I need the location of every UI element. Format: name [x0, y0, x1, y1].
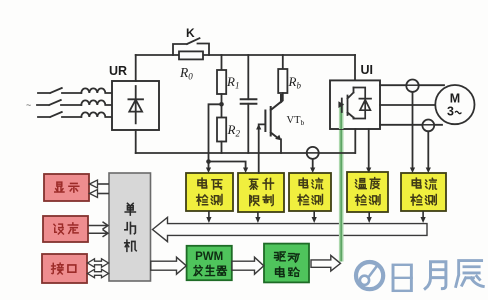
block: temperature detection 温度检测 [347, 172, 388, 212]
wire: motor phase U [380, 84, 444, 86]
svg-text:K: K [186, 26, 195, 40]
wire: DC+ bus down to UI [354, 55, 356, 80]
arrow into voltage detection [206, 168, 211, 174]
wire: R2 bottom to DC- bus [221, 142, 223, 154]
svg-text:PWM: PWM [195, 251, 223, 263]
wire: UI bottom to DC- bus [354, 129, 356, 153]
block: drive circuit 驱动电路 [264, 244, 309, 283]
block: current detection (output) 电流检测 [401, 173, 446, 211]
block: display 显示 [44, 174, 89, 201]
wire: Rb to VTb collector [281, 93, 283, 102]
arrow CT0 into current detection [310, 168, 315, 174]
block: PWM generator PWM发生器 [187, 246, 232, 280]
wire: DC current detection output arrow [312, 211, 317, 223]
arrow: PWM generator to drive circuit [232, 257, 264, 274]
wire: phase line 1 with switch [38, 88, 81, 93]
inductor: phase 2 choke [81, 100, 112, 105]
arrow: drive circuit to gate line [311, 255, 341, 271]
wire: CT0 to DC current detection [312, 159, 314, 169]
current sensor CT1 on phase U [406, 80, 418, 92]
wire: CT2 to output current detection [427, 131, 429, 168]
block: setting 设定 [43, 216, 88, 242]
wire: phase line 2 with switch [37, 100, 81, 105]
wire: CT1 to output current detection [412, 92, 414, 169]
wire: pump-up limit output arrow [255, 212, 260, 223]
block: current detection (DC bus) 电流检测 [289, 173, 331, 211]
wire: DC- bus [136, 152, 355, 154]
svg-text:M: M [450, 92, 460, 106]
wire: DC+ bus [136, 54, 355, 56]
current sensor CT0 on DC- bus [307, 147, 319, 159]
block: pump-up voltage limit 泵升限制 [238, 173, 284, 212]
resistor R0 [179, 51, 203, 59]
arrow: MCU to PWM generator [151, 257, 187, 274]
current sensor CT2 on phase W [422, 120, 434, 132]
inductor: phase 1 choke [81, 88, 112, 93]
contactor K branch [173, 38, 209, 55]
resistor R1 [217, 70, 226, 94]
wire: R1 to junction [221, 94, 223, 118]
arrow: setting to MCU [89, 222, 109, 237]
arrow into temperature detection [366, 168, 371, 174]
IGBT inside UI [342, 88, 354, 119]
rectifier UR box [112, 81, 159, 130]
arrow into pump-up limit [243, 168, 248, 174]
inductor: phase 3 choke [81, 112, 112, 117]
watermark logo icon [356, 262, 383, 289]
wire: motor phase V [380, 104, 436, 106]
diode inside UI [354, 88, 372, 119]
feedback bus block arrow into MCU [153, 217, 428, 241]
green gate-drive line from drive circuit up to UI [339, 103, 344, 262]
transistor VTb (IGBT) [265, 95, 281, 138]
wire: UR bottom to DC- bus [135, 130, 137, 153]
wire: motor phase W [380, 124, 442, 126]
wire: Rb branch from bus [282, 55, 284, 69]
wire: temperature detection output arrow [367, 212, 372, 223]
diode inside UR [128, 86, 143, 123]
resistor Rb [278, 69, 287, 93]
wire: UI to temperature detection [368, 129, 370, 169]
wire: phase line 3 with switch [38, 112, 81, 117]
wire: voltage detection output arrow [206, 211, 211, 223]
wire: R1 branch from bus [221, 55, 223, 70]
wire: VTb gate control from pump-up limit [259, 124, 265, 173]
wire: VTb emitter to DC- bus [280, 139, 282, 153]
wire: capacitor branch from bus [247, 55, 249, 99]
node: sense line split [206, 159, 211, 164]
arrow: MCU to display [90, 180, 110, 198]
inverter UI box [330, 80, 380, 129]
svg-text:~: ~ [26, 100, 31, 110]
arrow: interface to/from MCU (bidirectional) [88, 259, 109, 267]
arrow CT1 into current detection [410, 168, 415, 174]
capacitor C (DC link) [241, 99, 257, 104]
gate-drive green line inside UI [338, 101, 344, 129]
svg-text:UR: UR [109, 64, 127, 78]
svg-text:3: 3 [447, 105, 454, 119]
wire: UR top to DC+ bus [135, 55, 137, 81]
watermark text 日月辰 [393, 261, 483, 291]
motor M 3~ [435, 85, 474, 124]
wire: capacitor to DC- bus [247, 104, 249, 153]
resistor R2 [217, 118, 226, 142]
arrow CT2 into current detection [426, 168, 431, 174]
block: interface 接口 [42, 254, 87, 283]
wire: output current detection output arrow [421, 211, 426, 223]
node: R1/R2 junction [219, 102, 224, 107]
wire: voltage sense line from divider junction [209, 104, 246, 168]
block: MCU 单片机 [109, 173, 151, 281]
block: voltage detection 电压检测 [186, 173, 233, 211]
svg-text:UI: UI [361, 63, 374, 77]
